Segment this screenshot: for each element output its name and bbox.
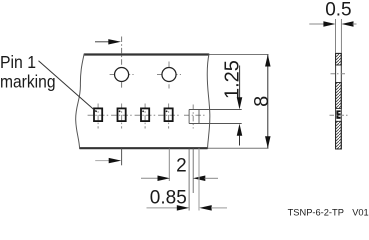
svg-text:marking: marking <box>0 72 56 92</box>
svg-text:0.5: 0.5 <box>325 0 351 20</box>
svg-text:2: 2 <box>176 155 187 176</box>
svg-text:8: 8 <box>251 96 273 107</box>
svg-text:0.85: 0.85 <box>150 187 187 208</box>
svg-text:Pin 1: Pin 1 <box>0 52 36 72</box>
svg-text:1.25: 1.25 <box>221 60 243 99</box>
svg-text:V01: V01 <box>352 208 369 218</box>
svg-text:TSNP-6-2-TP: TSNP-6-2-TP <box>288 208 344 218</box>
